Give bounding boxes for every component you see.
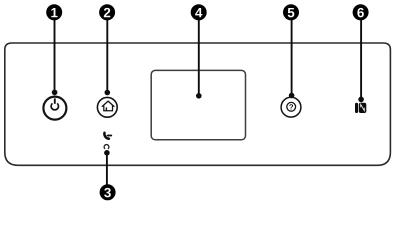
callout circle 3 xyxy=(100,184,116,200)
callout circle 2 xyxy=(99,4,115,20)
callout dot 3 xyxy=(104,150,110,156)
callout circle 5 xyxy=(283,4,299,20)
callout circle 6 xyxy=(353,4,369,20)
callout circle 1 xyxy=(46,4,62,20)
callout line 5 xyxy=(291,20,293,96)
help button xyxy=(281,97,301,117)
NFC tag icon xyxy=(355,103,366,113)
received fax LED xyxy=(104,145,109,149)
callout line 6 xyxy=(360,20,362,100)
callout dot 4 xyxy=(196,93,202,99)
received fax light icon xyxy=(104,133,112,139)
callout dot 5 xyxy=(289,93,295,99)
control panel outline xyxy=(5,43,391,165)
home button xyxy=(97,97,117,117)
power button xyxy=(43,97,66,120)
callout dot 2 xyxy=(105,90,111,96)
callout line 1 xyxy=(54,20,56,93)
callout dot 6 xyxy=(358,97,364,103)
callout line 3 xyxy=(106,153,108,185)
callout dot 1 xyxy=(52,90,58,96)
callout circle 4 xyxy=(191,4,207,20)
callout line 2 xyxy=(106,20,108,93)
callout line 4 xyxy=(198,20,200,96)
LCD screen xyxy=(151,70,245,139)
